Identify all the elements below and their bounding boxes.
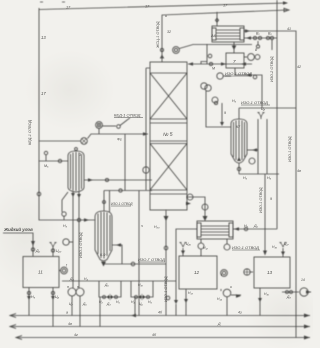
svg-text:9: 9 <box>270 197 272 201</box>
svg-text:Д₅: Д₅ <box>253 224 259 228</box>
svg-text:Ц₁₀: Ц₁₀ <box>56 249 62 253</box>
svg-text:Д₅: Д₅ <box>104 283 109 287</box>
svg-text:Ц₅: Ц₅ <box>139 302 143 306</box>
svg-text:Жидкий улов: Жидкий улов <box>3 227 33 232</box>
svg-text:12: 12 <box>194 270 200 275</box>
svg-text:11: 11 <box>38 270 43 275</box>
svg-text:13: 13 <box>267 270 273 275</box>
svg-text:ИЗО-1 ОТВОД: ИЗО-1 ОТВОД <box>259 187 263 213</box>
svg-text:Д₅: Д₅ <box>82 302 87 306</box>
svg-text:14: 14 <box>301 278 305 282</box>
svg-text:№ 5: № 5 <box>163 132 173 138</box>
svg-text:Ц₁₇: Ц₁₇ <box>284 242 290 246</box>
svg-text:Н₆: Н₆ <box>267 176 272 180</box>
svg-text:Н₁₀: Н₁₀ <box>138 283 144 287</box>
svg-text:Н₁₄: Н₁₄ <box>217 297 223 301</box>
svg-text:Ц₈: Ц₈ <box>261 107 266 111</box>
svg-text:ИЗО-1 ОТВОД: ИЗО-1 ОТВОД <box>164 276 168 302</box>
svg-text:32: 32 <box>167 30 171 34</box>
svg-text:А6: А6 <box>210 33 217 38</box>
svg-text:ИЗО-2 ОТВОД: ИЗО-2 ОТВОД <box>270 56 274 82</box>
svg-text:КЕД-1 ОТВОД: КЕД-1 ОТВОД <box>114 113 141 118</box>
svg-text:В₂: В₂ <box>268 32 272 36</box>
svg-text:Н₁₂: Н₁₂ <box>203 246 209 250</box>
svg-text:п: п <box>77 285 79 289</box>
svg-text:Д₅: Д₅ <box>35 249 41 253</box>
svg-text:ч: ч <box>141 224 143 228</box>
svg-text:и: и <box>230 285 232 289</box>
svg-text:ИЗО-1 ОТВОД: ИЗО-1 ОТВОД <box>79 232 83 258</box>
svg-text:Н₁₃: Н₁₃ <box>188 291 194 295</box>
svg-text:КЕД-1 ОТВОД: КЕД-1 ОТВОД <box>28 120 32 145</box>
svg-text:М₅: М₅ <box>44 164 49 168</box>
svg-text:ИЗО-1 ОТВОД: ИЗО-1 ОТВОД <box>288 136 292 162</box>
svg-text:К-9: К-9 <box>100 253 105 257</box>
svg-text:Н₉: Н₉ <box>31 295 36 299</box>
svg-text:Н₃: Н₃ <box>63 224 68 228</box>
svg-text:4в: 4в <box>297 169 301 173</box>
svg-text:Н₆: Н₆ <box>148 300 152 304</box>
svg-text:7: 7 <box>233 59 236 64</box>
svg-text:41: 41 <box>287 27 291 31</box>
svg-text:ИЗО-1 ОТВОД: ИЗО-1 ОТВОД <box>241 100 268 105</box>
svg-text:ИЗО-1 ОТВОД: ИЗО-1 ОТВОД <box>232 245 259 250</box>
svg-text:ЖСЦ-1 ОТВОД: ЖСЦ-1 ОТВОД <box>156 21 160 49</box>
svg-text:4з: 4з <box>238 311 242 315</box>
svg-text:п: п <box>67 285 69 289</box>
svg-text:42: 42 <box>297 65 301 69</box>
svg-text:М: М <box>212 67 215 71</box>
svg-text:Н₄: Н₄ <box>131 300 135 304</box>
svg-text:ИЗО-1 ОТВОД: ИЗО-1 ОТВОД <box>111 202 133 206</box>
svg-text:3: 3 <box>79 153 81 157</box>
svg-text:Д₃: Д₃ <box>106 302 111 306</box>
svg-text:17: 17 <box>41 91 46 96</box>
svg-text:Н₅: Н₅ <box>116 300 120 304</box>
svg-text:ИЗО-1 ОТВОД: ИЗО-1 ОТВОД <box>225 71 252 76</box>
svg-text:Д₄: Д₄ <box>69 277 74 281</box>
svg-text:4в: 4в <box>68 322 72 326</box>
svg-text:и: и <box>165 14 167 18</box>
svg-text:4г: 4г <box>74 333 78 337</box>
svg-text:Н₄: Н₄ <box>84 277 88 281</box>
svg-text:Н₅: Н₅ <box>243 176 248 180</box>
svg-text:Ц₉: Ц₉ <box>55 295 60 299</box>
svg-text:Д: Д <box>217 322 221 326</box>
svg-text:Н₂₀: Н₂₀ <box>154 225 160 229</box>
svg-text:13: 13 <box>41 35 46 40</box>
svg-text:Н₅: Н₅ <box>232 99 237 103</box>
svg-text:Н₁₆: Н₁₆ <box>272 245 278 249</box>
svg-text:а: а <box>66 311 68 315</box>
svg-text:Н₁₅: Н₁₅ <box>264 292 270 296</box>
svg-text:9: 9 <box>224 111 226 115</box>
svg-text:ИЗО-Г ОТВОД: ИЗО-Г ОТВОД <box>138 257 165 262</box>
svg-text:Фг: Фг <box>117 138 122 142</box>
svg-text:Д₈: Д₈ <box>286 295 291 299</box>
svg-text:Ц₁₅: Ц₁₅ <box>186 242 192 246</box>
